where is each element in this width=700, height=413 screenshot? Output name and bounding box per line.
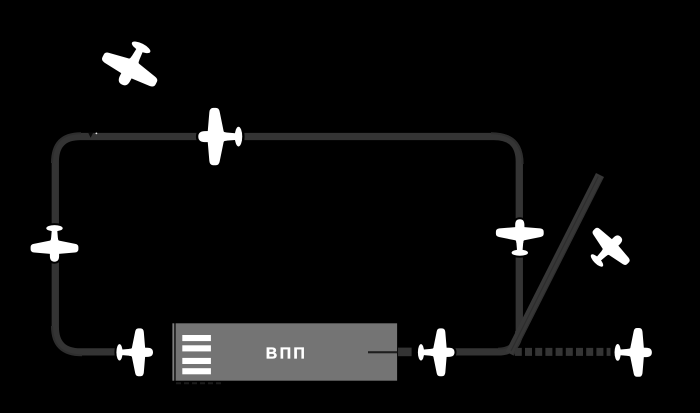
stroke-join notch artifact on top leg: [88, 133, 93, 138]
plane: downwind (top, flying west): [198, 108, 242, 165]
plane: base leg (left, flying south): [31, 225, 79, 262]
white speck artifact on top leg: [96, 133, 98, 135]
runway centre line to threshold: [368, 351, 398, 353]
plane: crosswind (right, flying north): [496, 219, 544, 256]
plane: 45-degree join (right, banked north-east): [578, 220, 638, 280]
threshold stripe 4: [182, 368, 211, 374]
runway ВПП: [176, 323, 398, 380]
faint wear dashes under runway threshold: [176, 382, 224, 384]
corner overdraw stroke bottom-right: [498, 331, 516, 349]
diagonal overdraw grain lines: [511, 177, 598, 352]
corner overdraw stroke top-left: [52, 133, 81, 163]
threshold stripe 1: [182, 335, 211, 341]
runway label ВПП: [266, 346, 307, 363]
plane: climb-out (bottom-middle, flying east): [418, 328, 455, 376]
dashed departure line east: [515, 348, 611, 356]
plane: final approach (bottom-left, flying east): [116, 328, 153, 376]
threshold stripe 3: [182, 358, 211, 364]
45-degree entry/exit diagonal: [510, 175, 600, 354]
corner overdraw stroke top-right: [491, 133, 523, 164]
svg-text:ВПП: ВПП: [266, 346, 307, 363]
plane: straight-out departure (bottom-right, flying east): [615, 328, 652, 377]
threshold stripe 2: [182, 345, 211, 351]
runway left threshold edge line: [172, 323, 174, 380]
corner overdraw stroke bottom-left: [52, 326, 82, 355]
circuit path (takeoff east, crosswind north, downwind west, base south, final east): [55, 137, 519, 352]
departure stub from runway end: [398, 348, 412, 357]
plane: crosswind turn (top-left, banked): [95, 30, 169, 98]
